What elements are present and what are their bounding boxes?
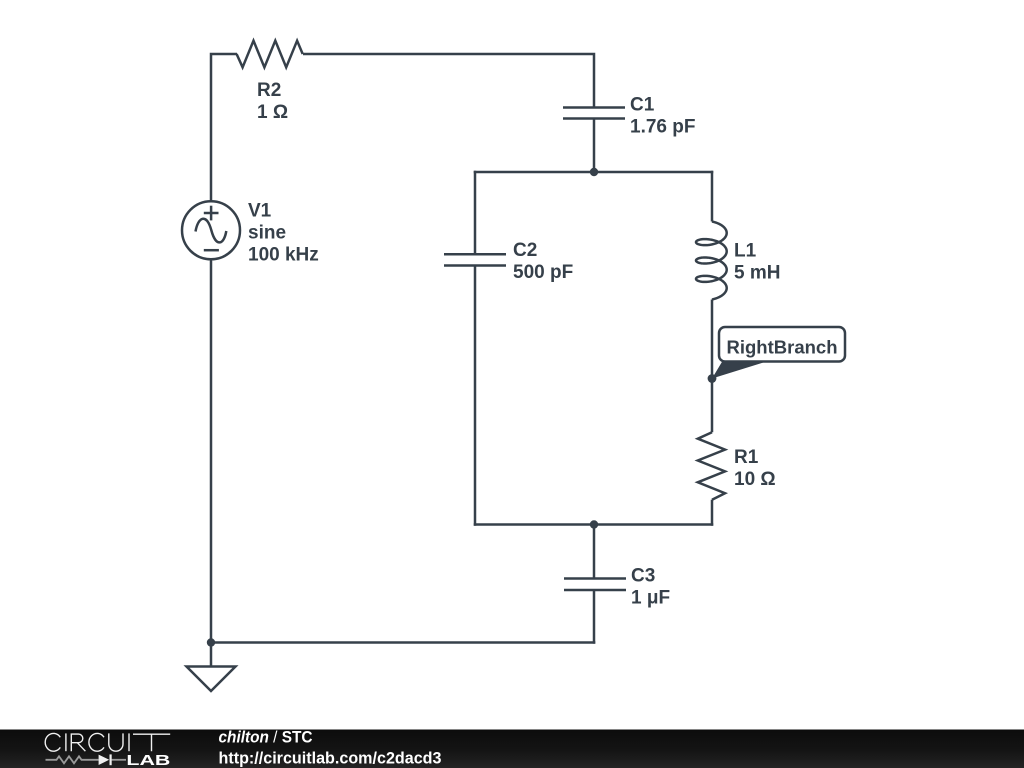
svg-text:LAB: LAB [126,753,170,768]
wire mid horizontal [474,171,714,174]
svg-text:sine: sine [248,223,286,244]
wire C3 to bottom rail [593,590,596,644]
logo CIRCUIT [45,733,170,751]
voltage source V1 [182,201,240,259]
capacitor C2 [444,253,506,256]
logo diode [99,755,110,765]
svg-text:http://circuitlab.com/c2dacd3: http://circuitlab.com/c2dacd3 [219,749,442,768]
svg-text:RightBranch: RightBranch [727,337,838,358]
svg-text:L1: L1 [734,241,757,262]
node dot bottom [590,520,598,528]
inductor L1 [696,222,727,300]
node dot top [590,168,598,176]
svg-text:R1: R1 [734,447,759,468]
wire node to C3 [593,525,596,579]
svg-text:10 Ω: 10 Ω [734,469,776,490]
svg-text:1 Ω: 1 Ω [257,102,288,123]
wire C1 to mid node [593,119,596,173]
capacitor C3 [564,577,626,580]
svg-text:C3: C3 [631,566,655,587]
svg-text:5 mH: 5 mH [734,263,780,284]
wire V1 to bottom rail [210,260,213,643]
capacitor C1 [563,106,625,109]
wire R1 to bottom [711,500,714,526]
ground [210,643,213,667]
svg-text:100 kHz: 100 kHz [248,245,319,266]
logo resistor-diode wire [46,756,127,763]
svg-text:C1: C1 [630,95,655,116]
resistor R2 [237,41,303,68]
svg-text:1 μF: 1 μF [631,588,670,609]
wire left branch lower [474,266,477,526]
wire top to C1 [303,54,594,108]
wire L1 to R1 [711,300,714,433]
svg-text:R2: R2 [257,80,281,101]
svg-text:V1: V1 [248,201,272,222]
node dot RightBranch [708,374,717,383]
svg-text:500 pF: 500 pF [513,262,573,283]
flag tail RightBranch [712,361,768,379]
svg-text:1.76 pF: 1.76 pF [630,117,695,138]
wire left branch upper [474,171,477,255]
wire left rail top [211,54,237,201]
wire right branch upper [711,171,714,222]
resistor R1 [698,432,725,500]
svg-text:chilton / STC: chilton / STC [219,728,313,747]
wire bottom of loop [474,523,714,526]
wire bottom rail [211,641,595,644]
flag box RightBranch [719,327,845,362]
node dot ground rail [207,638,215,646]
svg-text:C2: C2 [513,240,537,261]
